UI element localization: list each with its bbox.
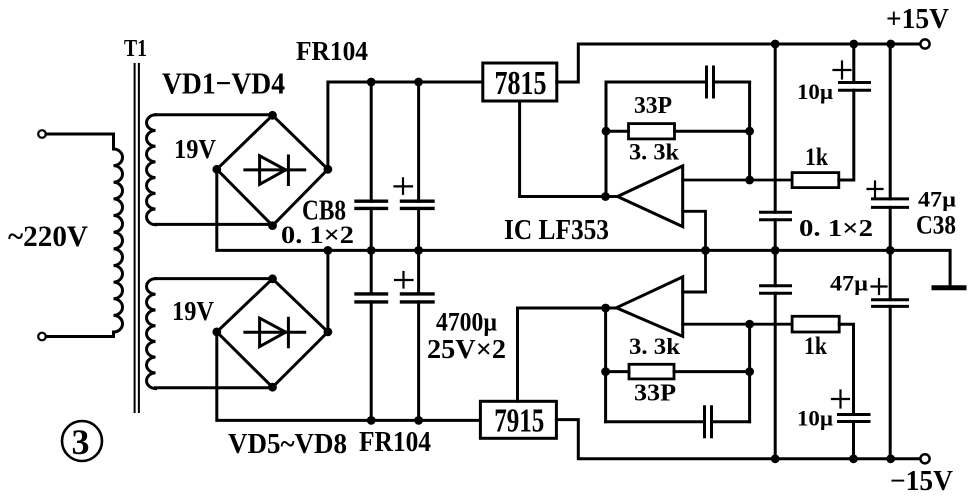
plus sign 10u bottom — [832, 391, 849, 408]
capacitor CB8 bottom (0.1) — [356, 250, 387, 420]
node dots bridge 1 — [212, 111, 332, 230]
resistor 1k top — [792, 90, 854, 187]
svg-text:25V×2: 25V×2 — [427, 334, 506, 364]
transformer secondary winding S1 — [147, 115, 273, 226]
transformer secondary winding S2 — [147, 279, 273, 389]
node dots bottom feedback — [601, 304, 754, 376]
svg-text:33P: 33P — [634, 381, 676, 407]
svg-text:VD5~VD8: VD5~VD8 — [228, 428, 347, 460]
plus sign 10u top — [834, 62, 851, 79]
svg-text:C38: C38 — [916, 211, 956, 240]
plus sign 47u top — [868, 182, 883, 197]
resistor 1k bottom — [792, 316, 853, 414]
capacitor 33P top — [606, 67, 750, 97]
svg-text:−15V: −15V — [890, 466, 953, 497]
transformer T1 primary winding — [114, 149, 123, 332]
wire U1a output to apex — [606, 195, 618, 198]
diode symbol inside bridge 1 — [245, 168, 305, 171]
wire 7815 ground to op-amp output — [520, 101, 606, 197]
svg-text:3. 3k: 3. 3k — [629, 140, 679, 165]
wire U1a lower input down to center rail — [683, 211, 706, 292]
capacitor 0.1 top right — [761, 44, 791, 250]
svg-text:0. 1×2: 0. 1×2 — [799, 216, 873, 242]
junction dots unregulated + rail — [367, 78, 423, 87]
svg-text:~220V: ~220V — [8, 220, 88, 253]
svg-text:VD1−VD4: VD1−VD4 — [162, 66, 285, 101]
wire — [46, 134, 114, 149]
svg-text:3. 3k: 3. 3k — [629, 334, 680, 359]
wire 7915 output to -15 rail — [556, 420, 920, 459]
svg-text:IC LF353: IC LF353 — [504, 215, 609, 246]
wire U1a upper input to 1k — [683, 179, 793, 182]
junction dots center rail — [324, 246, 895, 255]
wire 7915 ground to op-amp output — [518, 308, 606, 401]
wire U1b lower input to 1k — [683, 323, 792, 326]
svg-text:0. 1×2: 0. 1×2 — [281, 222, 354, 249]
capacitor 4700u bottom — [395, 250, 433, 420]
junction dots +15 rail — [771, 40, 895, 49]
regulator 7815 — [483, 44, 921, 197]
feedback riser left (top) — [605, 82, 608, 197]
wire S2 bottom to bridge — [156, 386, 273, 390]
wire U1b output to apex — [606, 307, 617, 310]
svg-text:7915: 7915 — [494, 403, 544, 440]
capacitor CB8 top (0.1) — [356, 82, 387, 250]
svg-text:T1: T1 — [124, 36, 147, 62]
feedback riser right (top) — [748, 82, 751, 180]
svg-text:19V: 19V — [172, 296, 214, 326]
wire S1 bottom to bridge — [156, 224, 273, 225]
wire — [46, 332, 114, 337]
svg-text:33P: 33P — [634, 93, 672, 119]
op-amp U1a (top) — [606, 166, 793, 292]
plus sign 47u bottom — [872, 279, 887, 294]
terminal: primary bottom — [38, 332, 113, 340]
wire S1 top to bridge — [156, 113, 273, 117]
capacitor 47u bottom — [872, 250, 908, 458]
plus sign 4700u bottom — [395, 272, 413, 288]
op-amp U1b (bottom) — [606, 277, 793, 337]
capacitor 4700u top — [395, 82, 434, 250]
node dots top feedback — [601, 127, 754, 201]
capacitor 0.1 bottom right — [761, 250, 791, 458]
ground — [934, 285, 964, 290]
svg-text:10µ: 10µ — [797, 406, 833, 431]
resistor 3.3k bottom — [606, 364, 750, 379]
svg-text:4700µ: 4700µ — [436, 308, 497, 337]
regulator 7915 — [480, 308, 920, 459]
terminal -15V — [920, 454, 929, 463]
wire U1b upper input handled above (same riser) — [683, 291, 706, 294]
diode symbol inside bridge 2 — [245, 331, 305, 334]
node dots bridge 2 — [212, 274, 332, 391]
resistor 3.3k top — [606, 124, 750, 139]
terminal: primary top — [38, 130, 113, 149]
bridge rectifier VD1-VD4 — [217, 115, 328, 225]
wire: bridge1 left vertex down to center rail — [217, 169, 950, 285]
svg-text:19V: 19V — [174, 134, 216, 164]
wire: bridge2 right vertex up to center rail — [326, 250, 329, 332]
svg-text:+15V: +15V — [886, 4, 949, 35]
svg-text:1k: 1k — [804, 333, 827, 360]
feedback riser right (bottom) — [748, 324, 751, 422]
capacitor 10u top — [834, 44, 870, 90]
figure number 3 circle — [62, 421, 102, 461]
capacitor 33P bottom — [606, 407, 750, 437]
capacitor 10u bottom — [832, 391, 869, 459]
svg-text:1k: 1k — [805, 144, 828, 171]
feedback riser left (bottom) — [604, 308, 607, 422]
terminal +15V — [920, 39, 929, 48]
svg-text:7815: 7815 — [495, 65, 547, 102]
capacitor 47u top (C38) — [868, 44, 908, 250]
svg-text:FR104: FR104 — [359, 427, 431, 458]
svg-text:47µ: 47µ — [830, 271, 868, 296]
wire: bridge2 left vertex down to unregulated - rail — [217, 332, 481, 421]
svg-text:FR104: FR104 — [296, 36, 368, 66]
bridge rectifier VD5~VD8 — [217, 279, 328, 387]
wire 7815 output to +15 rail — [557, 44, 921, 82]
wire: bridge1 right vertex up to unregulated + rail — [328, 82, 483, 169]
svg-text:47µ: 47µ — [918, 187, 956, 212]
svg-text:10µ: 10µ — [797, 79, 833, 104]
plus sign 4700u top — [395, 178, 413, 193]
svg-text:3: 3 — [72, 422, 90, 462]
transformer core — [135, 64, 139, 412]
junction dots -15 rail — [771, 454, 895, 463]
junction dots unregulated - rail — [367, 416, 423, 425]
wire S2 top to bridge — [156, 277, 273, 280]
